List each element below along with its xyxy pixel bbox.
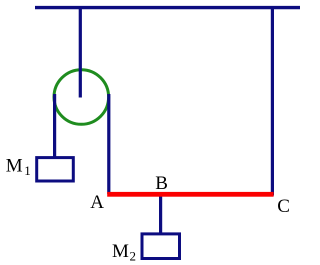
label M2 xyxy=(112,241,136,263)
mass M2 box xyxy=(142,234,180,259)
wire: right wall rod (ceiling to C) xyxy=(271,6,274,196)
pulley P1 (green wheel) xyxy=(54,70,109,125)
svg-text:M: M xyxy=(6,156,23,177)
wire: right string (pulley to A) xyxy=(107,94,110,194)
svg-text:2: 2 xyxy=(130,249,137,264)
svg-text:M: M xyxy=(112,241,129,262)
lever bar A-C (red) xyxy=(107,192,273,197)
label M1 xyxy=(6,156,31,179)
wire: left string (pulley to M1) xyxy=(53,94,56,158)
mass M1 box xyxy=(37,158,74,181)
svg-text:B: B xyxy=(155,173,168,194)
svg-text:1: 1 xyxy=(24,163,31,178)
wire: ceiling bar xyxy=(35,6,300,9)
svg-text:C: C xyxy=(277,196,290,217)
svg-text:A: A xyxy=(90,192,104,213)
wire: string at B (lever to M2) xyxy=(159,194,162,235)
wire: pulley support rod xyxy=(79,6,82,98)
